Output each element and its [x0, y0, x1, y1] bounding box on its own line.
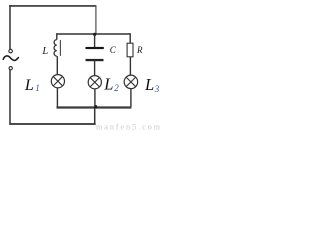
wire: top horizontal: [9, 5, 96, 7]
wire: lamp bottom bus: [57, 106, 132, 108]
wire: lamp L1 to lamp bus: [56, 88, 58, 107]
lamp L3 cross: [126, 77, 136, 87]
wire: coil to lamp L1: [56, 56, 58, 75]
svg-text:L: L: [103, 75, 113, 94]
lamp L2 circle: [88, 76, 101, 89]
junction dot at lamp bus and stub: [94, 105, 97, 108]
lamp L3 circle: [124, 75, 138, 89]
svg-text:C: C: [110, 45, 117, 55]
capacitor branch: wire from junction down to top plate: [94, 34, 96, 47]
inductor core line: [59, 40, 61, 56]
wire: left vertical (AC terminal down to bottom wire): [9, 70, 11, 125]
wire: box to lamp L3: [129, 57, 131, 76]
capacitor C bottom plate: [86, 59, 104, 61]
AC source terminal circle (lower): [9, 67, 12, 70]
lamp L1 cross: [53, 77, 62, 86]
wire: left vertical (top section to AC terminal): [9, 5, 11, 49]
resistor R box: [127, 43, 133, 57]
junction dot at bus and capacitor branch: [93, 33, 96, 36]
resistor branch: wire from bus down to box: [129, 33, 131, 43]
wire: middle horizontal bus: [57, 33, 131, 35]
svg-text:3: 3: [154, 84, 160, 94]
wire: bottom plate to lamp L2: [94, 61, 96, 77]
svg-text:1: 1: [35, 83, 40, 93]
svg-text:L: L: [41, 46, 48, 57]
svg-text:R: R: [136, 45, 143, 55]
svg-text:L: L: [24, 77, 34, 94]
capacitor C top plate: [86, 47, 104, 49]
svg-text:manfen5.com: manfen5.com: [96, 123, 161, 130]
svg-text:2: 2: [114, 83, 119, 93]
wire: lamp L3 to lamp bus: [130, 89, 132, 107]
inductor L coil (3 bumps): [54, 40, 57, 57]
AC source terminal circle (upper): [9, 49, 13, 53]
lamp L1 circle: [51, 75, 64, 88]
svg-text:L: L: [144, 75, 154, 94]
wire: lamp L2 to lamp bus: [94, 89, 96, 107]
lamp L2 cross: [90, 78, 99, 87]
AC source tilde symbol: [3, 56, 18, 61]
wire: stub from lamp bus down to bottom wire: [94, 106, 96, 124]
wire: right vertical from top wire down to middle bus: [95, 6, 97, 34]
inductor L branch: wire from bus down to coil: [56, 33, 58, 39]
wire: bottom horizontal: [9, 123, 95, 125]
